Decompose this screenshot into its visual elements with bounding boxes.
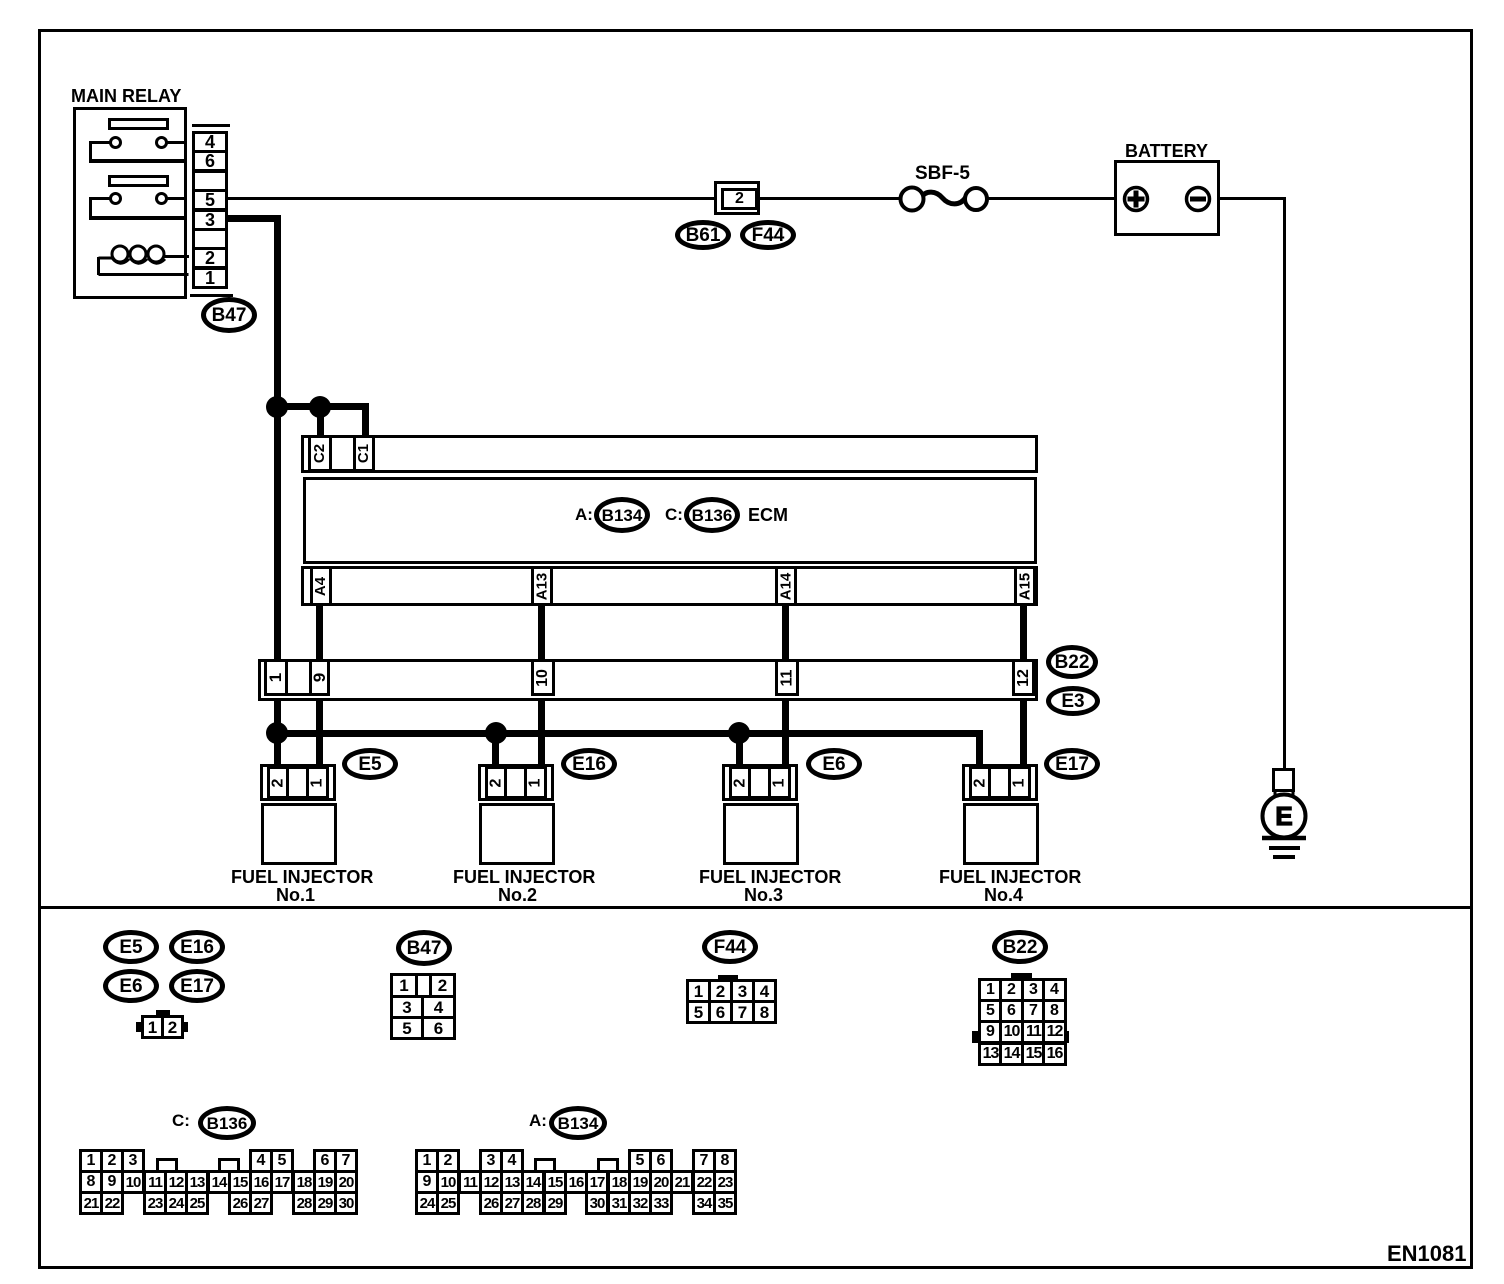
fuse SBF-5 symbol [896, 183, 991, 217]
relay connector pin cell 2 [192, 247, 228, 269]
B22 pinout cell 10 [999, 1020, 1024, 1044]
B136 pinout cell 10 [121, 1170, 145, 1194]
battery positive terminal [1122, 185, 1150, 213]
B134 pinout cell 27 [500, 1191, 524, 1215]
ECM connector label B136 [684, 497, 740, 533]
B136 pinout cell 14 [207, 1170, 231, 1194]
B22 pinout cell 4 [1042, 978, 1067, 1002]
B134 pinout cell 12 [479, 1170, 503, 1194]
injector No.2 pin cell blank [504, 766, 527, 799]
B136 pinout latch tab 2 [218, 1158, 240, 1171]
strip blank cell [285, 659, 312, 696]
B22 pinout right nub [1061, 1031, 1069, 1043]
B136 pinout cell 18 [292, 1170, 316, 1194]
B136 pinout cell 27 [249, 1191, 273, 1215]
relay contact 1 right stub to pin 4 [167, 141, 187, 144]
wire: pin 12 down to injector No.4 pin 1 [1020, 699, 1027, 769]
ECM pin cell A4 [310, 566, 332, 606]
B134 pinout cell 14 [521, 1170, 545, 1194]
label FUEL INJECTOR No.1 [231, 868, 373, 887]
junction dot bus / injector No.1 [266, 722, 288, 744]
B136 pinout cell 16 [249, 1170, 273, 1194]
B134 pinout cell 28 [521, 1191, 545, 1215]
injector pinout cell 2 [161, 1015, 184, 1039]
injector No.2 pin cell 1 [524, 766, 547, 799]
relay contact 1 bar [108, 118, 169, 130]
wire: drop into ECM pin C1 [362, 403, 369, 439]
B136 pinout cell 28 [292, 1191, 316, 1215]
pinout label A: [529, 1112, 547, 1130]
fuel injector No.4 connector outline [962, 764, 1038, 801]
relay connector pin cell blank [192, 170, 228, 192]
relay connector pin cell 1 [192, 267, 228, 289]
ECM label ECM [748, 506, 788, 525]
B136 pinout cell 17 [270, 1170, 294, 1194]
B136 pinout cell 30 [334, 1191, 358, 1215]
wire: bus down to injector No.1 pin 2 [274, 733, 281, 769]
label No.2 [498, 886, 537, 905]
label FUEL INJECTOR No.4 [939, 868, 1081, 887]
relay connector housing bottom edge [190, 294, 233, 297]
fuel injector No.2 connector outline [478, 764, 554, 801]
battery negative terminal [1184, 185, 1212, 213]
label SBF-5 [915, 164, 970, 184]
injector No.3 pin cell blank [748, 766, 771, 799]
label No.3 [744, 886, 783, 905]
B134 pinout cell 15 [543, 1170, 567, 1194]
relay contact 1 right circle [155, 136, 168, 149]
ECM pin cell C2 [308, 435, 332, 472]
fuel injector No.2 body [479, 803, 555, 865]
B134 pinout cell 23 [713, 1170, 737, 1194]
relay contact 2 lower arm to pin 3 [89, 216, 187, 220]
injector No.1 pin cell blank [286, 766, 309, 799]
wire: drop into ECM pin C2 [317, 403, 324, 439]
B22 pinout cell 14 [999, 1042, 1024, 1066]
B134 pinout cell 11 [458, 1170, 482, 1194]
B134 pinout cell 7 [692, 1149, 716, 1173]
B47 pinout cell 5 [390, 1016, 424, 1040]
B136 pinout cell 13 [185, 1170, 209, 1194]
B134 pinout cell 20 [649, 1170, 673, 1194]
B136 pinout cell 19 [313, 1170, 337, 1194]
relay connector B47 outline [192, 131, 228, 287]
pinout label C: [172, 1112, 190, 1130]
relay connector pin cell blank [192, 228, 228, 250]
wire: battery negative horizontal [1209, 197, 1286, 200]
B22 pinout cell 3 [1021, 978, 1046, 1002]
injector No.1 pin cell 1 [306, 766, 329, 799]
B136 pinout cell 6 [313, 1149, 337, 1173]
B136 pinout cell 21 [79, 1191, 103, 1215]
svg-text:E: E [1275, 801, 1292, 831]
wire: pin 9 down to injector No.1 pin 1 [316, 699, 323, 769]
B136 pinout cell 9 [100, 1170, 124, 1194]
junction dot bus / injector No.3 [728, 722, 750, 744]
injector connector pinout right nub [182, 1022, 188, 1032]
F44 pinout cell 3 [730, 979, 755, 1003]
strip pin cell 10 [531, 659, 555, 696]
B136 pinout cell 15 [228, 1170, 252, 1194]
ECM connector label B134 [594, 497, 650, 533]
pinout label B47 [396, 930, 452, 966]
B134 pinout cell 1 [415, 1149, 439, 1173]
injector No.2 pin cell 2 [485, 766, 507, 799]
B22 pinout cell 5 [978, 999, 1003, 1023]
battery outline [1114, 160, 1220, 236]
relay contact 1 lower arm to pin 6 [89, 159, 187, 163]
B134 pinout cell 31 [607, 1191, 631, 1215]
B136 pinout cell 26 [228, 1191, 252, 1215]
wire: bus down to injector No.2 pin 2 [492, 733, 499, 769]
F44 pinout cell 8 [752, 1000, 777, 1024]
ECM A-connector strip [301, 566, 1038, 606]
relay connector pin cell 3 [192, 209, 228, 231]
wire: ECM A13 down to connector pin 10 [538, 604, 545, 662]
injector No.4 pin cell 2 [969, 766, 991, 799]
B134 pinout cell 10 [436, 1170, 460, 1194]
B134 pinout cell 19 [628, 1170, 652, 1194]
connector label F44 [740, 220, 796, 250]
injector No.3 pin cell 1 [768, 766, 791, 799]
connector label E5 [342, 748, 398, 780]
relay contact 2 right circle [155, 192, 168, 205]
label No.1 [276, 886, 315, 905]
B134 pinout cell 35 [713, 1191, 737, 1215]
fuel injector No.1 body [261, 803, 337, 865]
ECM label A: [575, 506, 593, 524]
wire: pin 11 down to injector No.3 pin 1 [782, 699, 789, 769]
B134 pinout cell 9 [415, 1170, 439, 1194]
wire: bus down to injector No.3 pin 2 [736, 733, 743, 769]
B136 pinout latch tab 1 [156, 1158, 178, 1171]
B136 pinout cell 11 [143, 1170, 167, 1194]
B47 pinout cell 6 [421, 1016, 456, 1040]
relay contact 2 left stub [89, 197, 110, 200]
wire: branch to ECM C connector horizontal [277, 403, 369, 410]
junction dot above ECM pin C2 [309, 396, 331, 418]
connector label B61 [675, 220, 731, 250]
pinout label E5 [103, 930, 159, 964]
B47 pinout cell 4 [421, 995, 456, 1019]
ECM pin cell blank [329, 435, 356, 472]
relay coil [93, 238, 189, 284]
B134 pinout cell 25 [436, 1191, 460, 1215]
ECM pin cell A15 [1014, 566, 1036, 606]
wire: battery negative down to ground [1283, 197, 1286, 770]
B136 pinout cell 23 [143, 1191, 167, 1215]
main relay outline [73, 107, 187, 299]
B136 pinout cell 4 [249, 1149, 273, 1173]
injector No.4 pin cell 1 [1008, 766, 1031, 799]
ECM body [303, 477, 1037, 564]
B47 pinout cell 3 [390, 995, 424, 1019]
B22 pinout top tab [1011, 973, 1032, 978]
strip pin cell 1 [264, 659, 288, 696]
B134 pinout cell 16 [564, 1170, 588, 1194]
relay connector housing top edge [192, 124, 230, 127]
F44 pinout cell 4 [752, 979, 777, 1003]
B136 pinout cell 7 [334, 1149, 358, 1173]
label MAIN RELAY [71, 87, 181, 106]
B134 pinout cell 6 [649, 1149, 673, 1173]
strip pin cell 12 [1012, 659, 1035, 696]
B134 pinout cell 33 [649, 1191, 673, 1215]
pinout label E17 [169, 969, 225, 1003]
B136 pinout cell 1 [79, 1149, 103, 1173]
B136 pinout cell 22 [100, 1191, 124, 1215]
connector label B47 [201, 297, 257, 333]
F44 pinout top tab [718, 975, 738, 980]
B134 pinout cell 4 [500, 1149, 524, 1173]
B134 pinout cell 32 [628, 1191, 652, 1215]
ECM label C: [665, 506, 683, 524]
figure number EN1081 [1387, 1242, 1467, 1265]
B134 pinout cell 21 [670, 1170, 694, 1194]
B134 pinout cell 8 [713, 1149, 737, 1173]
connector label E3 [1046, 686, 1100, 716]
B22 pinout cell 6 [999, 999, 1024, 1023]
connector label E17 [1044, 748, 1100, 780]
wire: main supply vertical [274, 215, 281, 737]
junction dot on main vertical at branch [266, 396, 288, 418]
B136 pinout cell 25 [185, 1191, 209, 1215]
B136 pinout cell 8 [79, 1170, 103, 1194]
injector connector pinout top tab [156, 1010, 170, 1016]
wire: bus down to injector No.4 pin 2 [976, 730, 983, 769]
relay contact 2 left circle [109, 192, 122, 205]
B134 pinout cell 3 [479, 1149, 503, 1173]
junction dot bus / injector No.2 [485, 722, 507, 744]
B22 pinout cell 16 [1042, 1042, 1067, 1066]
F44 pinout cell 1 [686, 979, 711, 1003]
ECM pin cell A13 [531, 566, 553, 606]
B22 pinout cell 1 [978, 978, 1003, 1002]
fuel injector No.1 connector outline [260, 764, 336, 801]
connector label E6 [806, 748, 862, 780]
pinout label E6 [103, 969, 159, 1003]
B134 pinout cell 17 [585, 1170, 609, 1194]
B22 pinout cell 15 [1021, 1042, 1046, 1066]
relay contact 2 right stub to pin 5 [167, 197, 187, 200]
relay contact 1 left circle [109, 136, 122, 149]
pinout label E16 [169, 930, 225, 964]
fuel injector No.3 connector outline [722, 764, 798, 801]
wire: injector supply bus horizontal [274, 730, 982, 737]
wire: relay pin 3 horizontal [228, 215, 281, 222]
B136 pinout cell 3 [121, 1149, 145, 1173]
B47 pinout cell blank [415, 973, 432, 998]
intermediate connector strip B22/E3 [258, 659, 1038, 701]
ECM pin cell C1 [353, 435, 375, 472]
injector connector pinout left nub [136, 1022, 142, 1032]
B22 pinout left nub [972, 1031, 978, 1043]
wire: relay pin 5 to battery positive [228, 197, 1125, 200]
injector No.1 pin cell 2 [267, 766, 289, 799]
pinout label B134 [549, 1106, 607, 1140]
wire: ECM A4 down to connector pin 9 [316, 604, 323, 662]
relay connector pin cell 4 [192, 131, 228, 153]
fuel injector No.4 body [963, 803, 1039, 865]
injector pinout cell 1 [141, 1015, 164, 1039]
ECM C-connector strip [301, 435, 1038, 473]
wire: pin 10 down to injector No.2 pin 1 [538, 699, 545, 769]
pinout label B22 [992, 930, 1048, 964]
in-line connector outer box [714, 181, 760, 215]
ground terminal square [1272, 768, 1295, 792]
B22 pinout cell 11 [1021, 1020, 1046, 1044]
injector No.3 pin cell 2 [729, 766, 751, 799]
B136 pinout cell 29 [313, 1191, 337, 1215]
F44 pinout cell 6 [708, 1000, 733, 1024]
B136 pinout cell 5 [270, 1149, 294, 1173]
label No.4 [984, 886, 1023, 905]
B22 pinout cell 2 [999, 978, 1024, 1002]
label FUEL INJECTOR No.3 [699, 868, 841, 887]
B136 pinout cell 2 [100, 1149, 124, 1173]
relay contact 1 vertical [89, 141, 92, 162]
pinout label B136 [198, 1106, 256, 1140]
B22 pinout cell 9 [978, 1020, 1003, 1044]
B134 pinout latch tab 1 [534, 1158, 556, 1171]
relay connector pin cell 6 [192, 150, 228, 172]
connector label E16 [561, 748, 617, 780]
B134 pinout latch tab 2 [597, 1158, 619, 1171]
relay contact 1 left stub [89, 141, 110, 144]
wire: ECM A14 down to connector pin 11 [782, 604, 789, 662]
strip pin cell 11 [775, 659, 799, 696]
B134 pinout cell 5 [628, 1149, 652, 1173]
B134 pinout cell 18 [607, 1170, 631, 1194]
fuel injector No.3 body [723, 803, 799, 865]
B134 pinout cell 22 [692, 1170, 716, 1194]
section divider line [38, 906, 1472, 909]
B134 pinout cell 30 [585, 1191, 609, 1215]
label BATTERY [1125, 142, 1208, 161]
F44 pinout cell 2 [708, 979, 733, 1003]
relay contact 2 bar [108, 175, 169, 187]
label FUEL INJECTOR No.2 [453, 868, 595, 887]
wire: ECM A15 down to connector pin 12 [1020, 604, 1027, 662]
B22 pinout cell 12 [1042, 1020, 1067, 1044]
B22 pinout cell 7 [1021, 999, 1046, 1023]
relay contact 2 vertical [89, 197, 92, 219]
strip pin cell 9 [309, 659, 330, 696]
B22 pinout cell 8 [1042, 999, 1067, 1023]
relay connector pin cell 5 [192, 189, 228, 211]
B134 pinout cell 26 [479, 1191, 503, 1215]
B134 pinout cell 2 [436, 1149, 460, 1173]
B134 pinout cell 29 [543, 1191, 567, 1215]
pinout label F44 [702, 930, 758, 964]
B134 pinout cell 34 [692, 1191, 716, 1215]
F44 pinout cell 7 [730, 1000, 755, 1024]
injector No.4 pin cell blank [988, 766, 1011, 799]
ground symbol E circle [1258, 790, 1310, 865]
B136 pinout cell 24 [164, 1191, 188, 1215]
connector label B22 [1046, 645, 1098, 679]
B134 pinout cell 13 [500, 1170, 524, 1194]
B136 pinout cell 12 [164, 1170, 188, 1194]
B136 pinout cell 20 [334, 1170, 358, 1194]
B134 pinout cell 24 [415, 1191, 439, 1215]
B47 pinout cell 1 [390, 973, 418, 998]
in-line connector pin 2 [721, 188, 758, 210]
ECM pin cell A14 [775, 566, 797, 606]
B47 pinout cell 2 [429, 973, 456, 998]
B22 pinout cell 13 [978, 1042, 1003, 1066]
F44 pinout cell 5 [686, 1000, 711, 1024]
